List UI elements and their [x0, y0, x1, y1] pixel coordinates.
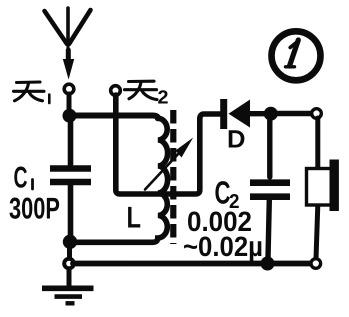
capacitor C2 plates [250, 183, 290, 197]
node junction B (C1 / coil bottom) [63, 235, 77, 249]
wire C1 top lead [68, 116, 74, 165]
svg-text:L: L [127, 202, 142, 235]
wire ground bus [73, 261, 311, 267]
node junction C (diode / C2 / earphone wire) [264, 107, 278, 121]
terminal top right [312, 109, 322, 119]
svg-text:C: C [14, 162, 28, 195]
wire antenna terminal to junction [67, 94, 72, 112]
ferrite core dashed line [170, 110, 176, 244]
ground symbol [42, 268, 94, 303]
node junction D (C2 / ground bus) [261, 257, 275, 271]
svg-text:D: D [227, 126, 246, 154]
diode D [224, 99, 265, 129]
capacitor C1 plates [50, 169, 91, 183]
terminal 天2 [111, 86, 121, 96]
terminal 天1 [64, 84, 74, 94]
earphone pole bar [330, 160, 339, 212]
wire 天2 tap (down, right, up to diode) [116, 95, 221, 194]
svg-text:2: 2 [158, 88, 169, 109]
svg-text:~0.02µ: ~0.02µ [183, 231, 263, 262]
figure number circled 1 [272, 31, 321, 80]
earphone body rectangle [307, 169, 332, 206]
wire C1 bottom lead [68, 186, 74, 243]
wire junction C to right terminal [271, 111, 311, 116]
wire junction B to ground node [67, 242, 72, 259]
antenna [45, 8, 91, 80]
node ground ring terminal [64, 259, 74, 269]
earphone B (wires) [315, 118, 320, 168]
inductor L (coil) [70, 118, 168, 242]
tuning arrow across coil [145, 138, 193, 190]
wire top horizontal to coil [69, 116, 158, 119]
label subscript 1 of C1 [31, 180, 34, 190]
wire C2 top lead [267, 117, 272, 177]
wire C2 bottom lead [268, 200, 269, 258]
label 天2 [125, 81, 158, 99]
label 天1 [14, 82, 50, 103]
terminal bottom right [311, 259, 321, 269]
svg-text:300P: 300P [9, 193, 60, 226]
node junction A (antenna / C1 / top wire) [63, 109, 77, 123]
